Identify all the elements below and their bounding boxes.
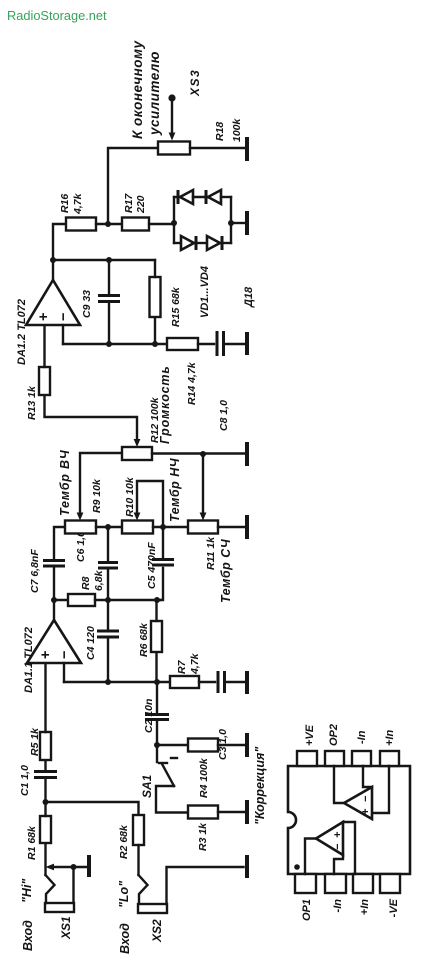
wire C4 run (107, 638, 109, 682)
svg-text:С7 6,8nF: С7 6,8nF (29, 549, 41, 593)
wiper R18 to XS3 (168, 94, 175, 140)
svg-text:Д18: Д18 (243, 286, 255, 308)
diodes VD1..VD4 (171, 190, 255, 318)
wire OP2 output to pin7 (334, 766, 345, 803)
ground R11 (218, 515, 247, 539)
resistor R6 (138, 600, 162, 682)
resistor R17 (122, 193, 149, 231)
wire feedback rail DA1.1 (64, 679, 170, 685)
resistor R4 (157, 739, 218, 799)
wire DA1.2 inverting input (62, 325, 64, 344)
ground R18 (190, 137, 247, 161)
svg-text:XS1: XS1 (59, 916, 73, 940)
svg-text:RadioStorage.net: RadioStorage.net (7, 8, 107, 23)
svg-text:DA1.1 TL072: DA1.1 TL072 (23, 627, 35, 693)
ground R12 (152, 442, 247, 466)
svg-text:DA1.2 TL072: DA1.2 TL072 (16, 299, 28, 365)
label К оконечному усилителю (130, 40, 162, 139)
svg-text:С2 10n: С2 10n (143, 699, 155, 733)
svg-text:OP2: OP2 (328, 724, 340, 746)
ground diode bridge (231, 211, 247, 235)
wire R7 to C3 (199, 681, 215, 683)
IC DIP-8 body (288, 766, 410, 874)
svg-text:VD1...VD4: VD1...VD4 (199, 266, 211, 318)
svg-text:R8: R8 (80, 576, 92, 590)
capacitor C1 (19, 765, 57, 796)
wire C4 to output rail (107, 600, 109, 630)
svg-text:Тембр СЧ: Тембр СЧ (219, 538, 233, 603)
svg-text:Тембр ВЧ: Тембр ВЧ (58, 449, 72, 516)
svg-text:R16: R16 (59, 194, 71, 213)
pin 3 +In (353, 874, 373, 915)
wire OP1 +in to pin3 (343, 822, 355, 874)
svg-text:R15 68k: R15 68k (170, 286, 182, 327)
svg-text:R10 10k: R10 10k (124, 476, 136, 517)
wire DA1.2 output to R16 (53, 224, 66, 280)
svg-text:+In: +In (384, 730, 396, 746)
wire R9 to R10 with node (96, 524, 122, 530)
resistor R2 (118, 815, 144, 859)
connector XS2 (138, 845, 247, 913)
wire XS1 to R1 (44, 843, 46, 875)
svg-text:-VE: -VE (388, 898, 400, 917)
capacitor C7 (29, 527, 65, 600)
wire OP2 -in to pin6 (363, 766, 372, 787)
pin 1 OP1 (295, 874, 316, 921)
capacitor C5 (146, 527, 174, 600)
svg-text:"Hi": "Hi" (20, 878, 34, 903)
op-amp DA1.1 (23, 620, 81, 693)
capacitor C3 (217, 671, 229, 760)
svg-text:+In: +In (359, 899, 371, 915)
resistor R14 (167, 338, 214, 405)
potentiometer R11 Тембр СЧ (188, 521, 233, 604)
svg-text:С1 1,0: С1 1,0 (19, 765, 31, 796)
svg-text:220: 220 (135, 195, 147, 214)
pin 2 -In (325, 874, 346, 912)
pin 5 +In (380, 730, 399, 766)
svg-text:Вход: Вход (21, 920, 35, 951)
wire node to R2 (46, 802, 139, 815)
capacitor C8 (217, 331, 230, 431)
wire DA1.1 output (51, 597, 57, 620)
svg-text:"Коррекция": "Коррекция" (253, 746, 267, 825)
wire DA1.1 inverting input (63, 663, 65, 682)
resistor R7 (170, 652, 201, 688)
wire R10 to R11 with node (153, 524, 188, 530)
svg-text:С8 1,0: С8 1,0 (218, 400, 230, 431)
svg-text:Вход: Вход (118, 923, 132, 954)
pin 4 -VE (380, 874, 400, 917)
svg-text:R14 4,7k: R14 4,7k (186, 361, 198, 405)
svg-text:R4 100k: R4 100k (198, 757, 210, 798)
ground R3 (218, 800, 247, 824)
pin 8 +VE (297, 724, 317, 766)
wire R13 to DA1.2 + (43, 325, 45, 367)
svg-text:С6 1,0: С6 1,0 (75, 531, 87, 562)
pin 7 OP2 (325, 724, 344, 766)
svg-text:R5 1k: R5 1k (29, 727, 41, 756)
svg-text:−: − (360, 795, 372, 802)
resistor R5 (29, 727, 51, 760)
svg-text:R1 68k: R1 68k (26, 825, 38, 860)
svg-text:XS3: XS3 (188, 69, 202, 97)
svg-text:К оконечному: К оконечному (130, 40, 145, 139)
resistor R8 (54, 569, 160, 606)
ground C3 (226, 671, 247, 694)
capacitor C9 (81, 260, 120, 344)
svg-text:+: + (360, 808, 372, 815)
capacitor C4 (85, 626, 119, 660)
svg-text:−: − (332, 843, 344, 850)
wire R1 to C1 with node (43, 779, 49, 816)
ground R4 (218, 733, 247, 757)
svg-text:4,7k: 4,7k (189, 652, 201, 675)
svg-text:4,7k: 4,7k (72, 192, 84, 215)
svg-text:С5 470nF: С5 470nF (146, 542, 158, 589)
svg-text:R18: R18 (214, 122, 226, 141)
svg-text:R17: R17 (123, 193, 135, 213)
potentiometer R9 Тембр ВЧ (58, 449, 103, 533)
svg-text:+: + (332, 831, 344, 838)
resistor R13 (26, 367, 50, 420)
svg-text:Тембр НЧ: Тембр НЧ (168, 457, 182, 522)
svg-text:+: + (38, 651, 54, 659)
resistor R1 (26, 816, 51, 860)
capacitor C2 (143, 682, 169, 748)
wire C1 to R5 (44, 760, 46, 770)
svg-text:−: − (57, 651, 73, 659)
wire output rail DA1.2 (50, 257, 155, 263)
op-amp OP1 internal (316, 822, 344, 855)
wire node to R18 (108, 148, 158, 224)
potentiometer R10 Тембр НЧ (122, 457, 182, 533)
svg-text:-In: -In (356, 730, 368, 744)
svg-text:усилителю: усилителю (147, 51, 162, 136)
wire R16 to R17 with node (96, 221, 122, 227)
ground C8 (225, 332, 247, 355)
svg-text:−: − (56, 313, 72, 321)
svg-text:С9 33: С9 33 (81, 290, 93, 318)
svg-text:R3 1k: R3 1k (197, 822, 209, 851)
svg-text:R6 68k: R6 68k (138, 622, 150, 657)
svg-text:+VE: +VE (304, 724, 316, 746)
pin 6 -In (352, 730, 371, 766)
wiper R10 loop (134, 481, 163, 525)
resistor R16 (59, 192, 96, 230)
svg-text:R9 10k: R9 10k (91, 478, 103, 513)
svg-text:R2 68k: R2 68k (118, 824, 130, 859)
svg-text:6,8k: 6,8k (93, 569, 105, 591)
wiper R9 to R12 (77, 453, 122, 521)
switch SA1 (140, 745, 188, 813)
resistor R15 (150, 260, 183, 344)
wiper R12 to R13 (45, 395, 141, 447)
svg-text:+: + (36, 313, 52, 321)
wiper R11 (200, 451, 207, 521)
svg-text:-In: -In (332, 899, 344, 913)
svg-text:С4 120: С4 120 (85, 626, 97, 660)
wire OP2 +in to pin5 (372, 766, 389, 813)
svg-text:"Lo": "Lo" (117, 880, 131, 908)
svg-text:XS2: XS2 (150, 919, 164, 943)
connector XS1 (45, 855, 89, 912)
wire feedback rail DA1.2 (63, 341, 167, 347)
wire R17 to diode bridge (149, 223, 174, 225)
capacitor C6 (75, 527, 118, 600)
wire R5 to DA1.1 + (44, 663, 46, 732)
op-amp OP2 internal (344, 787, 372, 819)
svg-text:OP1: OP1 (301, 899, 313, 921)
svg-text:R11 1k: R11 1k (205, 536, 217, 570)
svg-text:R7: R7 (176, 659, 188, 674)
potentiometer R12 Громкость (122, 365, 172, 460)
svg-text:R13 1k: R13 1k (26, 385, 38, 420)
svg-text:SA1: SA1 (140, 774, 154, 798)
resistor R3 (188, 806, 218, 852)
svg-text:100k: 100k (231, 117, 243, 142)
potentiometer R18 (158, 117, 243, 154)
wire OP1 output to pin1 (305, 839, 317, 875)
op-amp DA1.2 (16, 280, 80, 365)
wire OP1 -in to pin2 (334, 855, 343, 874)
svg-text:Громкость: Громкость (158, 365, 172, 444)
